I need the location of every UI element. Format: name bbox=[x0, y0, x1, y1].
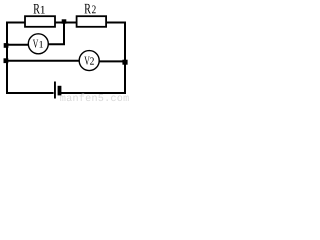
wire: from J1 down and left to V1 right terminal bbox=[48, 23, 64, 44]
node junction J2 on left rail (V1 tap) bbox=[4, 43, 9, 48]
wire: outer loop (left rail, top wire, right rail, bottom wire with battery gap) bbox=[7, 23, 125, 94]
voltmeter V2 bbox=[79, 51, 99, 71]
voltmeter V1 label bbox=[33, 40, 38, 48]
voltmeter V2 label bbox=[84, 57, 89, 65]
battery: long thin plate (positive) bbox=[54, 82, 56, 99]
wire: left rail to V2 left terminal bbox=[6, 60, 80, 62]
node junction J3 on left rail (V2 tap) bbox=[4, 58, 9, 63]
label R1 bbox=[33, 4, 39, 13]
label R2 bbox=[84, 4, 90, 13]
wire: left rail to V1 left terminal bbox=[6, 44, 29, 46]
voltmeter V1 bbox=[28, 34, 48, 54]
resistor R2 bbox=[77, 16, 107, 27]
node junction J1 between R1 and R2 bbox=[62, 19, 67, 23]
node junction J4 on right rail (V2 tap) bbox=[122, 60, 127, 65]
battery: short thick plate (negative) bbox=[58, 86, 62, 96]
resistor R1 bbox=[25, 16, 55, 27]
watermark manfen5.com bbox=[60, 96, 65, 101]
wire: V2 right terminal to right rail bbox=[100, 60, 126, 62]
